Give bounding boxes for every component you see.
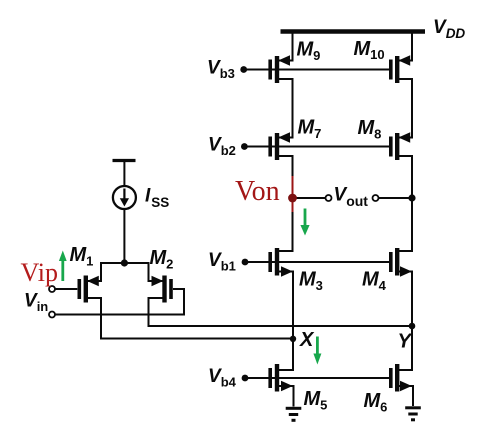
wire M7 drain to Von node bbox=[279, 156, 293, 198]
transistor M7 (PMOS) bbox=[270, 133, 289, 160]
terminal dot Vb3 bbox=[240, 66, 247, 73]
svg-text:Y: Y bbox=[398, 331, 413, 353]
bias line Vb2 (gates of M7 and M8) bbox=[244, 146, 389, 148]
wire M1 source to tail node bbox=[88, 263, 124, 281]
wire Vin terminal to M2 gate bbox=[55, 289, 184, 315]
VDD rail bbox=[281, 29, 426, 34]
wire Von node down to M3 drain bbox=[279, 198, 293, 251]
transistor M4 (NMOS) bbox=[391, 248, 411, 276]
wire Vip terminal to M1 gate bbox=[55, 288, 77, 290]
bias line Vb4 (gates of M5 and M6) bbox=[245, 377, 389, 379]
svg-text:X: X bbox=[299, 329, 315, 351]
Vout left terminal circle bbox=[326, 195, 332, 201]
supply bar above ISS bbox=[113, 159, 136, 162]
wire M1 drain to node X bbox=[88, 298, 293, 339]
wire M6 source to ground bbox=[399, 386, 413, 406]
transistor M5 (NMOS) bbox=[270, 364, 291, 392]
wire node X to M5 drain bbox=[279, 339, 293, 371]
wire ISS to supply bar bbox=[123, 161, 125, 186]
wire M9 drain to M7 source bbox=[279, 79, 293, 138]
Vout right terminal circle bbox=[373, 195, 379, 201]
transistor M1 (PMOS, input pair) bbox=[79, 276, 98, 303]
output node junction dot bbox=[408, 194, 415, 201]
transistor M6 (NMOS) bbox=[391, 364, 411, 392]
transistor M3 (NMOS) bbox=[270, 248, 291, 276]
terminal dot Vb4 bbox=[242, 375, 249, 382]
annotation green arrow at Vip (up) bbox=[59, 251, 67, 282]
transistor M9 (PMOS) bbox=[270, 56, 289, 83]
wire M4 source to node Y bbox=[399, 272, 412, 327]
transistor M2 (PMOS, input pair) bbox=[152, 276, 171, 303]
wire M2 source to tail node bbox=[124, 263, 163, 281]
wire node Y to M6 drain bbox=[399, 326, 412, 370]
svg-text:Von: Von bbox=[235, 176, 280, 207]
ground symbol under M5 bbox=[286, 408, 302, 420]
transistor M8 (PMOS) bbox=[391, 133, 410, 160]
wire tail node to current source ISS bbox=[123, 209, 125, 263]
terminal dot Vb2 bbox=[241, 143, 248, 150]
input terminal circle Vin bbox=[49, 312, 55, 318]
wire M10 drain to M8 source bbox=[399, 79, 412, 138]
transistor M10 (PMOS) bbox=[391, 56, 410, 83]
current source ISS bbox=[113, 186, 136, 209]
wire Vout right terminal to output node bbox=[379, 197, 413, 199]
bias line Vb3 (gates of M9 and M10) bbox=[244, 69, 389, 71]
node X junction dot bbox=[290, 336, 296, 342]
node Y junction dot bbox=[409, 323, 416, 330]
bias line Vb1 (gates of M3 and M4) bbox=[245, 261, 389, 263]
wire M8 drain to output node bbox=[399, 156, 412, 198]
input terminal circle Vip bbox=[49, 286, 55, 292]
wire Von node to Vout left terminal bbox=[293, 197, 326, 199]
red highlighted wire segment at Von node bbox=[292, 176, 294, 212]
terminal dot Vb1 bbox=[242, 259, 249, 266]
annotation green arrow below X (down) bbox=[313, 337, 321, 365]
annotation green arrow below Von (down) bbox=[300, 209, 309, 236]
tail junction node bbox=[121, 259, 128, 266]
wire VDD to M9 source bbox=[279, 34, 293, 61]
wire M5 source to ground bbox=[279, 386, 294, 407]
svg-text:Vip: Vip bbox=[21, 258, 58, 287]
wire VDD to M10 source bbox=[399, 34, 412, 61]
node Von (red junction dot) bbox=[288, 194, 297, 203]
wire M2 drain to node Y bbox=[149, 298, 413, 326]
wire M3 source to node X bbox=[279, 272, 293, 339]
ground symbol under M6 bbox=[405, 408, 421, 420]
wire output node down to M4 drain bbox=[399, 198, 412, 251]
